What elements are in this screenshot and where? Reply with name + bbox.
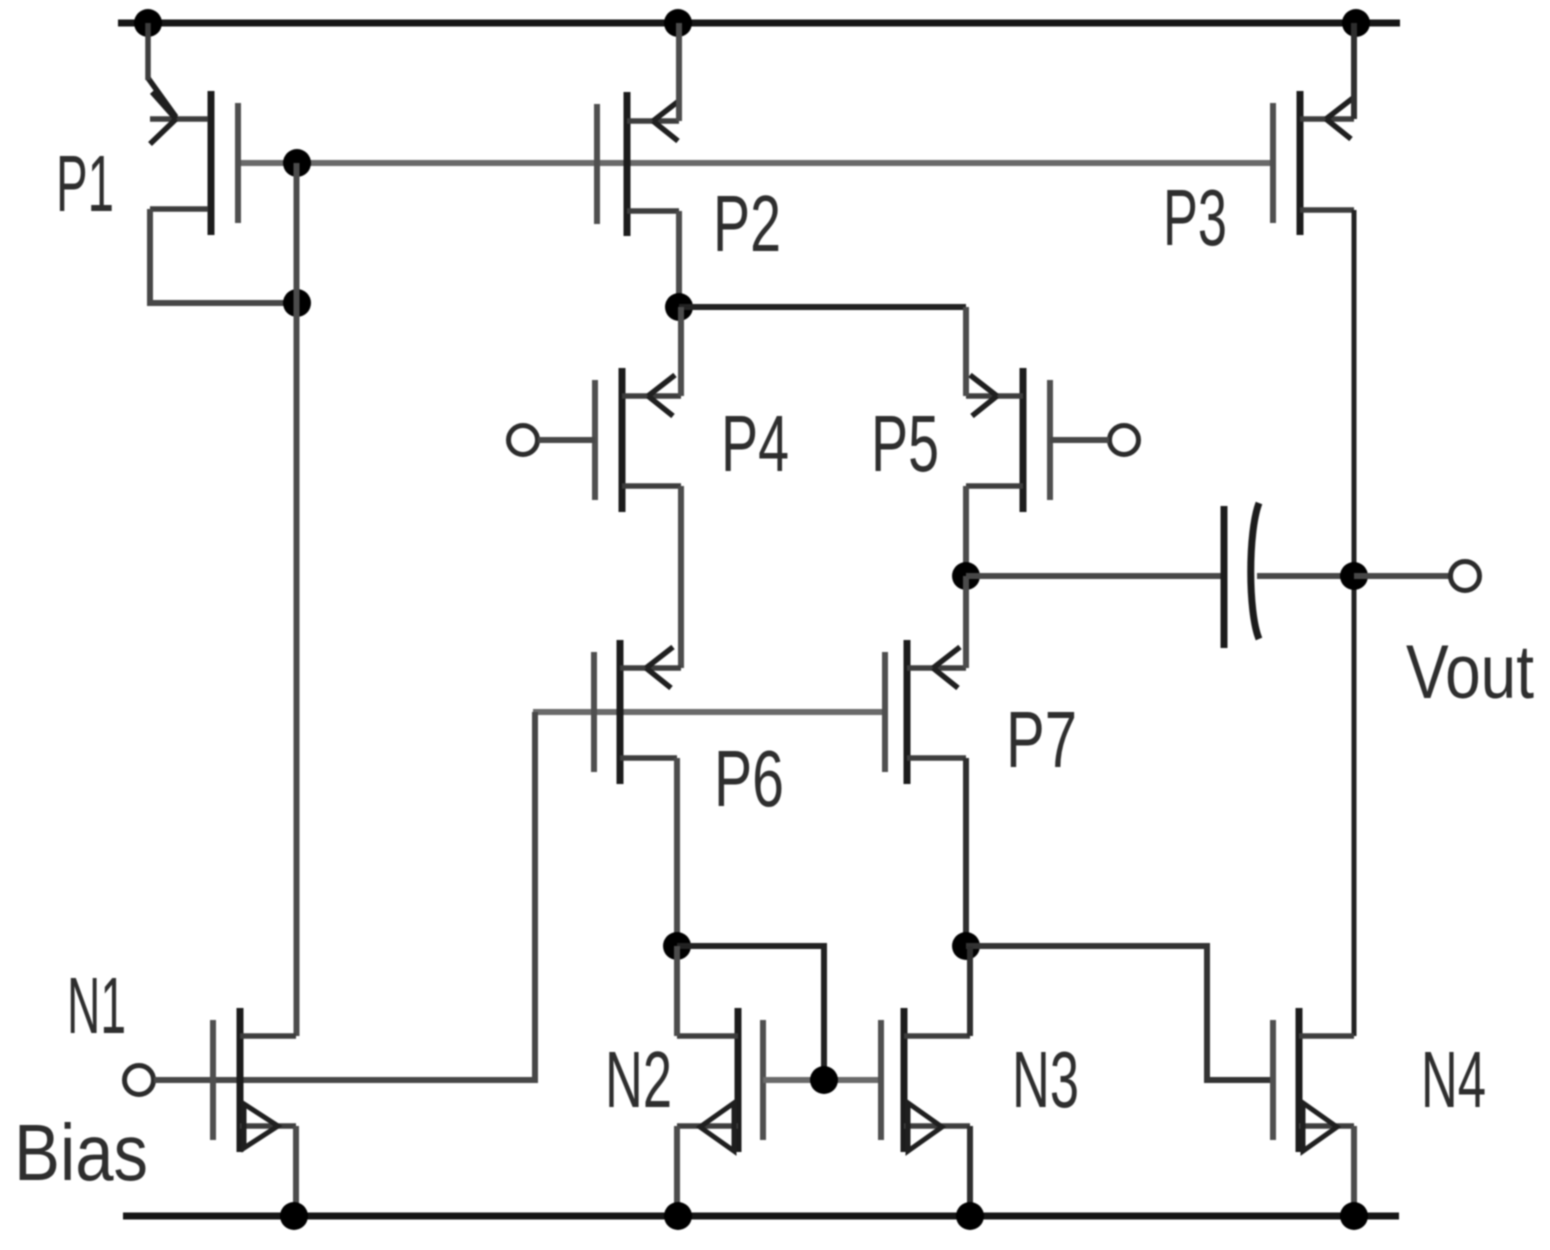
gate bus P6-P7	[533, 709, 885, 715]
junction dot Vout node	[1340, 562, 1368, 590]
transistor P7	[885, 640, 966, 784]
Vout terminal	[1451, 562, 1480, 591]
Bias input terminal	[125, 1066, 154, 1095]
svg-text:P2: P2	[713, 179, 781, 268]
transistor N4	[1273, 1008, 1354, 1152]
wire Bias line to P6/P7 gate bus	[154, 712, 535, 1080]
wire P1 gate-drain to N1 drain (long vertical)	[294, 163, 300, 1036]
wire P7 drain node to N4 gate	[966, 946, 1273, 1080]
gate bus P1-P2-P3	[240, 160, 1273, 166]
capacitor C1 right plate (curved)	[1251, 503, 1259, 639]
N2/N3 gate bus	[763, 1077, 881, 1083]
transistor P3	[1273, 91, 1354, 235]
wire first-stage node to P5 source (horizontal)	[679, 304, 966, 310]
wire node to P5 source	[963, 307, 969, 396]
wire N4 source to VSS	[1351, 1126, 1357, 1216]
transistor N1	[213, 1008, 296, 1152]
svg-text:P7: P7	[1006, 695, 1077, 784]
wire P5 gate lead	[1050, 437, 1109, 443]
junction dot VSS N1	[280, 1202, 308, 1230]
wire Vout node to terminal	[1354, 573, 1451, 579]
junction dot P1 drain node	[283, 289, 311, 317]
transistor P2	[597, 92, 679, 236]
wire node to P4 source	[678, 307, 684, 396]
P4 gate input terminal	[509, 426, 538, 455]
transistor N3	[881, 1008, 970, 1152]
wire N3 drain up	[967, 946, 973, 1036]
wire VDD to P2 source	[676, 23, 682, 121]
svg-text:Vout: Vout	[1406, 630, 1534, 715]
junction dot P6 drain node	[663, 932, 691, 960]
wire output node to P7 source	[963, 576, 969, 668]
P6 source arrow	[646, 647, 673, 688]
svg-text:P4: P4	[721, 399, 789, 488]
svg-text:P6: P6	[714, 734, 784, 823]
N2 source arrow	[700, 1103, 734, 1151]
junction dot first-stage node	[665, 293, 693, 321]
wire capacitor to Vout node	[1257, 573, 1354, 579]
VDD top rail	[118, 20, 1400, 27]
junction dot internal output node	[952, 562, 980, 590]
svg-text:Bias: Bias	[14, 1108, 148, 1197]
P7 source arrow	[933, 647, 960, 688]
junction dot N2/N3 gate node	[810, 1066, 838, 1094]
transistor P1	[150, 91, 238, 235]
P4 source arrow	[648, 375, 675, 416]
wire N3 source to VSS	[967, 1126, 973, 1216]
P5 source arrow	[970, 375, 997, 416]
P5 gate input terminal	[1110, 426, 1139, 455]
transistor P6	[594, 640, 681, 784]
junction dot VSS N2	[664, 1202, 692, 1230]
wire P4 gate lead	[538, 437, 595, 443]
N4 source arrow	[1303, 1103, 1337, 1151]
svg-text:N4: N4	[1421, 1035, 1486, 1124]
junction dot VDD middle (P2 source)	[664, 9, 692, 37]
transistor P5	[966, 368, 1050, 512]
transistor N2	[677, 1008, 763, 1152]
junction dot VSS N4	[1340, 1202, 1368, 1230]
wire P1 drain loop	[150, 209, 297, 303]
junction dot VSS N3	[956, 1202, 984, 1230]
P1 source arrow	[148, 78, 176, 144]
wire N1 source to VSS	[293, 1126, 299, 1216]
wire P5 drain to output node	[963, 486, 969, 576]
P2 source arrow	[653, 100, 680, 141]
transistor P4	[595, 368, 681, 512]
junction dot VDD left (P1 source)	[134, 9, 162, 37]
svg-text:N2: N2	[605, 1035, 672, 1124]
wire N2 source to VSS	[674, 1126, 680, 1216]
junction dot VDD right (P3 source)	[1342, 9, 1370, 37]
capacitor C1 left plate	[1221, 506, 1228, 648]
wire VDD to P1 source	[145, 23, 151, 80]
compensation capacitor C1 wire from output node	[966, 573, 1224, 579]
svg-text:N1: N1	[67, 961, 126, 1050]
junction dot gate bus / P1 drain tie	[283, 149, 311, 177]
svg-text:P5: P5	[871, 399, 939, 488]
svg-text:P3: P3	[1163, 173, 1227, 262]
wire P3 drain to Vout to N4 drain (long vertical)	[1352, 210, 1357, 1036]
wire P2 drain down	[676, 211, 682, 307]
wire VDD to P3 source	[1351, 23, 1357, 119]
svg-text:P1: P1	[56, 139, 114, 228]
wire N2 drain up	[674, 946, 680, 1036]
wire P7 drain down	[963, 758, 969, 946]
N1 source arrow	[244, 1104, 278, 1148]
wire P4 drain to P6 source	[678, 486, 684, 668]
P3 source arrow	[1326, 98, 1353, 139]
VSS bottom rail	[123, 1213, 1399, 1220]
wire P6 drain down	[674, 758, 680, 946]
wire P6 drain node to N2/N3 gate bus	[677, 946, 824, 1080]
junction dot P7 drain node	[952, 932, 980, 960]
svg-text:N3: N3	[1012, 1035, 1079, 1124]
N3 source arrow	[908, 1103, 942, 1151]
